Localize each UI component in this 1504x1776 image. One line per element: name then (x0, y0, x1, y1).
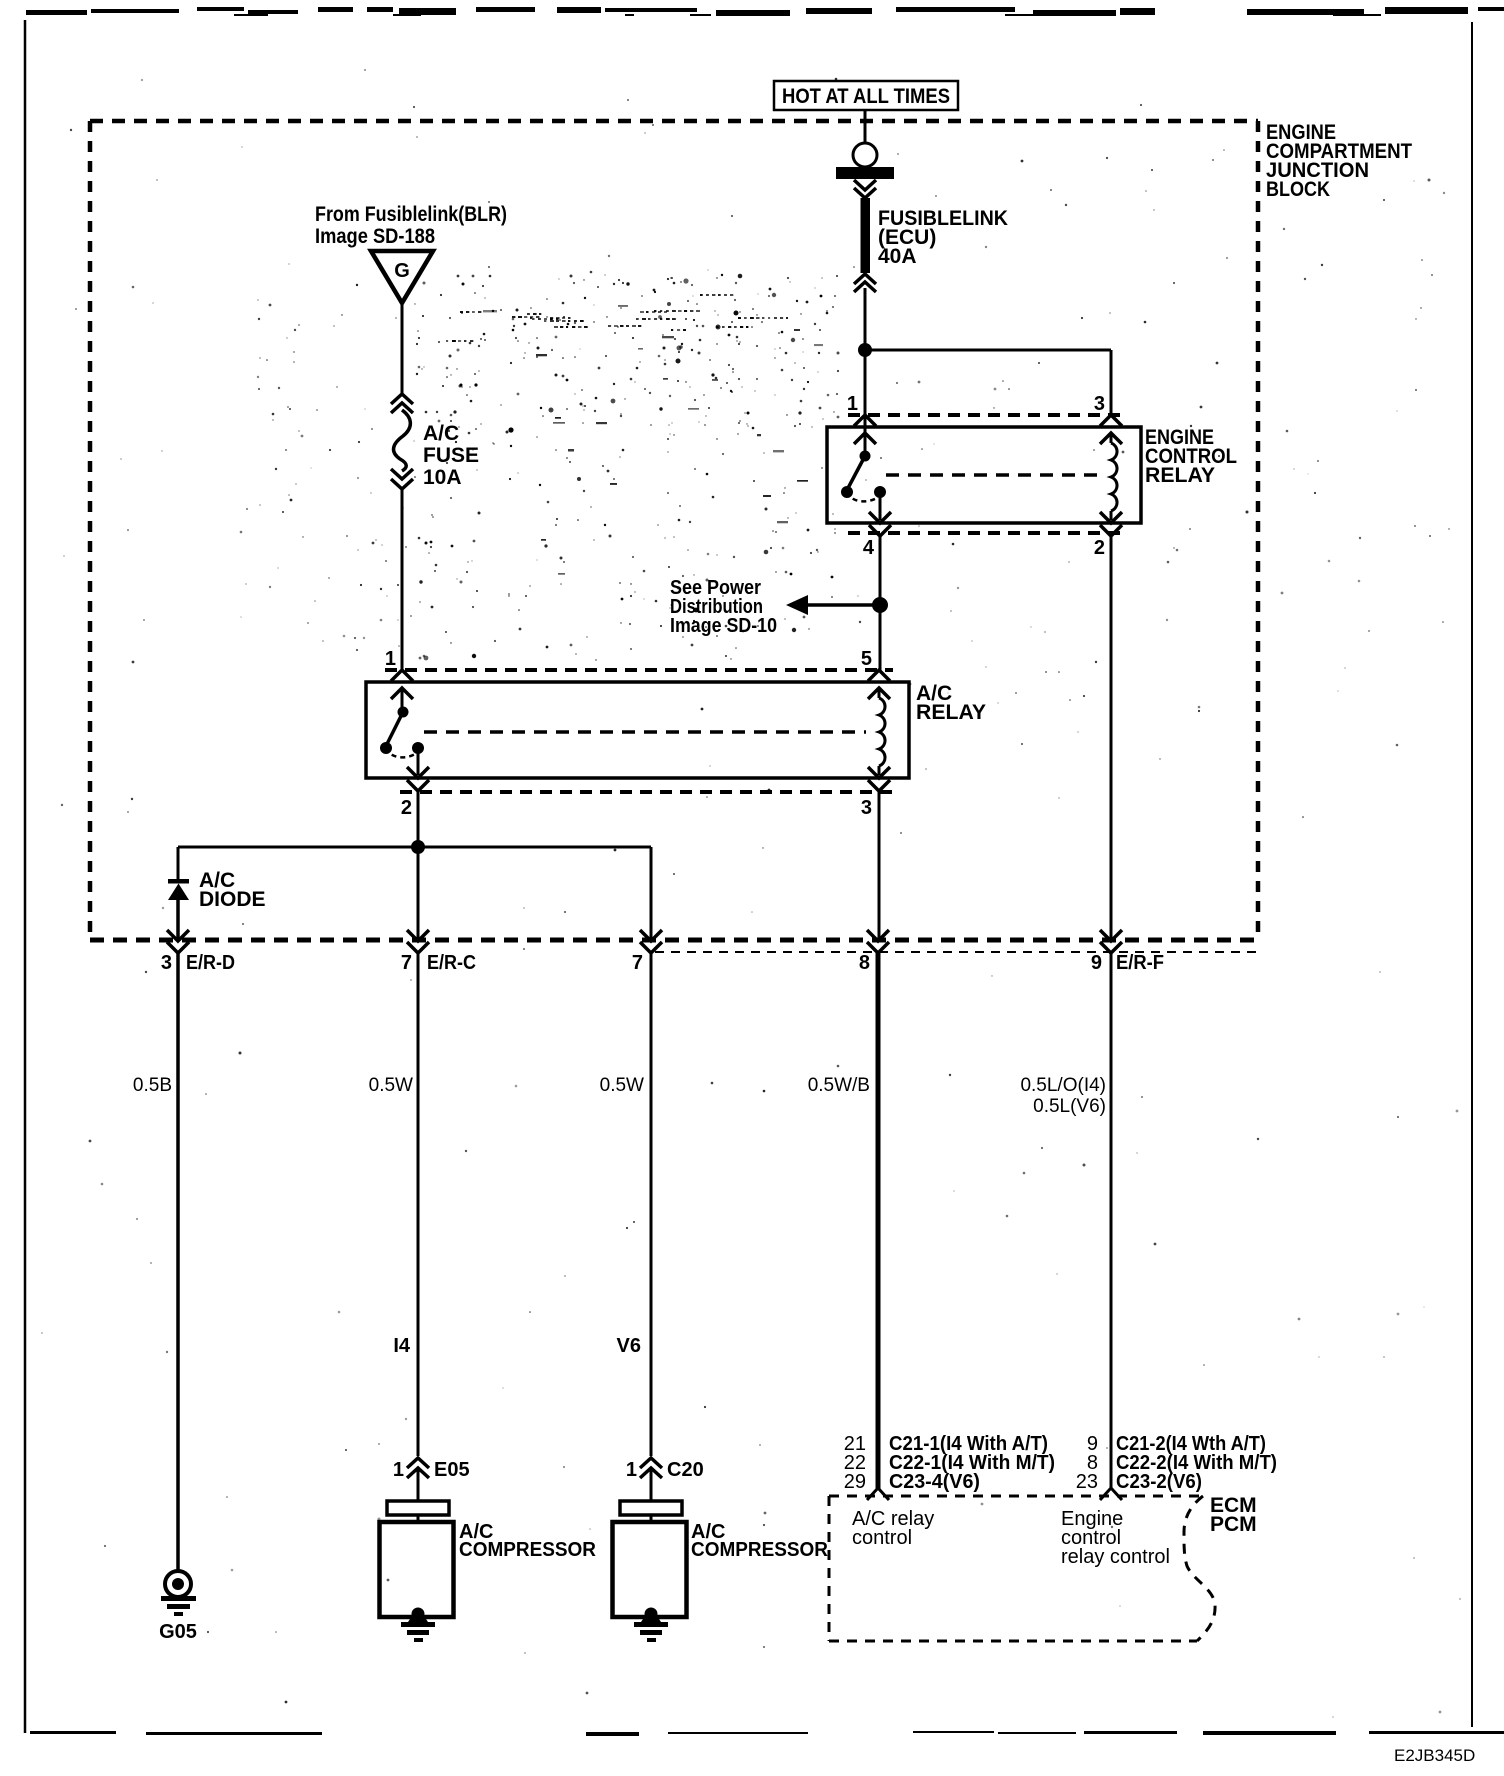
svg-text:0.5W: 0.5W (369, 1075, 413, 1096)
svg-text:9: 9 (1091, 952, 1102, 974)
svg-text:E/R-D: E/R-D (186, 952, 235, 974)
svg-text:1: 1 (847, 393, 858, 415)
svg-text:C23-2(V6): C23-2(V6) (1116, 1471, 1202, 1493)
svg-text:E2JB345D: E2JB345D (1394, 1746, 1475, 1765)
svg-text:relay control: relay control (1061, 1546, 1170, 1568)
svg-text:23: 23 (1076, 1471, 1098, 1493)
svg-text:G: G (394, 260, 410, 282)
svg-text:HOT AT ALL TIMES: HOT AT ALL TIMES (782, 85, 950, 108)
svg-text:7: 7 (632, 952, 643, 974)
svg-text:10A: 10A (423, 466, 462, 489)
svg-text:0.5L(V6): 0.5L(V6) (1033, 1096, 1106, 1117)
svg-text:0.5B: 0.5B (133, 1075, 172, 1096)
svg-text:Image SD-10: Image SD-10 (670, 615, 777, 637)
svg-text:1: 1 (626, 1459, 637, 1481)
svg-text:BLOCK: BLOCK (1266, 178, 1330, 201)
svg-text:8: 8 (859, 952, 870, 974)
svg-text:2: 2 (401, 797, 412, 819)
svg-text:G05: G05 (159, 1621, 197, 1643)
svg-text:E05: E05 (434, 1459, 470, 1481)
svg-text:40A: 40A (878, 245, 917, 268)
svg-text:Image SD-188: Image SD-188 (315, 225, 435, 248)
svg-text:V6: V6 (617, 1335, 641, 1357)
svg-text:0.5W/B: 0.5W/B (808, 1075, 870, 1096)
svg-text:I4: I4 (393, 1335, 411, 1357)
svg-text:COMPRESSOR: COMPRESSOR (691, 1539, 829, 1561)
svg-text:From Fusiblelink(BLR): From Fusiblelink(BLR) (315, 203, 507, 226)
svg-text:COMPRESSOR: COMPRESSOR (459, 1539, 597, 1561)
svg-text:4: 4 (863, 537, 875, 559)
svg-text:control: control (852, 1527, 912, 1549)
svg-text:3: 3 (161, 952, 172, 974)
svg-text:C20: C20 (667, 1459, 704, 1481)
svg-text:RELAY: RELAY (916, 701, 986, 724)
svg-text:PCM: PCM (1210, 1513, 1257, 1536)
svg-text:3: 3 (861, 797, 872, 819)
svg-text:3: 3 (1094, 393, 1105, 415)
svg-text:0.5L/O(I4): 0.5L/O(I4) (1020, 1075, 1106, 1096)
svg-text:5: 5 (861, 648, 872, 670)
svg-text:C23-4(V6): C23-4(V6) (889, 1471, 980, 1493)
svg-text:DIODE: DIODE (199, 888, 266, 911)
svg-text:0.5W: 0.5W (600, 1075, 644, 1096)
svg-text:E/R-C: E/R-C (427, 952, 476, 974)
svg-text:A/C: A/C (423, 422, 459, 445)
svg-text:29: 29 (844, 1471, 866, 1493)
svg-text:FUSE: FUSE (423, 444, 479, 467)
svg-text:E/R-F: E/R-F (1116, 952, 1164, 974)
svg-text:2: 2 (1094, 537, 1105, 559)
svg-text:7: 7 (401, 952, 412, 974)
svg-text:RELAY: RELAY (1145, 464, 1215, 487)
svg-text:1: 1 (393, 1459, 404, 1481)
